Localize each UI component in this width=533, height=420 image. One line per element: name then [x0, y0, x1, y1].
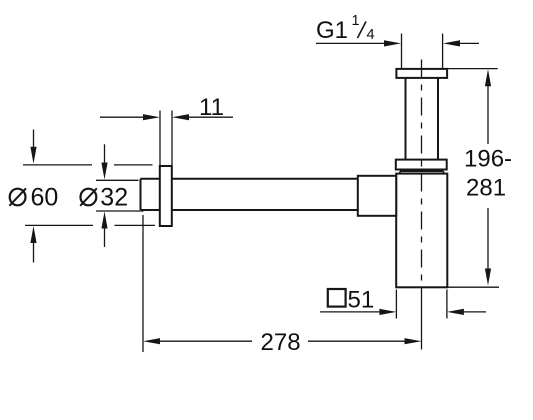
dim 32 arrows shafts [104, 144, 106, 247]
svg-text:51: 51 [348, 287, 375, 314]
arrow 11 left [143, 114, 160, 120]
arrow 278 left [143, 338, 160, 344]
arrow 60 bottom [30, 226, 36, 243]
dim 51 lines [320, 311, 486, 313]
svg-text:196-: 196- [464, 146, 512, 173]
arrow G1 right [443, 40, 460, 46]
dim 278 lines [160, 340, 405, 342]
dim 32 ext bottom [96, 210, 144, 212]
dim 60 ext bottom [25, 224, 155, 226]
seal ring [400, 171, 444, 173]
label diameter 60 [9, 188, 26, 206]
svg-text:1: 1 [352, 13, 360, 29]
arrow 32 top [101, 163, 107, 180]
dim 32 ext top [96, 179, 139, 181]
arrow 32 bottom [101, 212, 107, 229]
svg-text:60: 60 [31, 183, 59, 211]
ext lines 51 [396, 290, 447, 319]
svg-text:4: 4 [367, 27, 375, 43]
arrow 11 right [172, 114, 189, 120]
dim G1 1/4 lines [316, 42, 479, 44]
dim 196-281 shaft [487, 86, 489, 270]
svg-text:11: 11 [199, 94, 224, 121]
arrow 51 left [379, 309, 396, 315]
arrow 281 down [485, 269, 491, 286]
top flange [396, 69, 447, 78]
label diameter 32 [80, 188, 97, 206]
svg-text:281: 281 [466, 175, 506, 202]
trap body [396, 174, 447, 288]
svg-text:32: 32 [100, 183, 128, 211]
top nut [396, 160, 447, 170]
centerline vertical [421, 60, 423, 288]
dim 60 arrows shafts [33, 130, 35, 263]
arrow 60 top [30, 147, 36, 164]
ext lines G1 [402, 34, 443, 69]
ext lines 11 [160, 111, 172, 166]
arrow G1 left [384, 40, 401, 46]
label square 51 [328, 289, 346, 307]
wall flange [160, 166, 172, 226]
svg-text:G1: G1 [316, 17, 348, 44]
arrow 196 up [485, 69, 491, 86]
dim 11 lines [100, 116, 233, 118]
dim 60 ext top [23, 164, 153, 166]
upper pipe [406, 78, 439, 160]
svg-text:278: 278 [261, 329, 301, 356]
arrow 278 right [405, 338, 422, 344]
dim 196-281 ext top [447, 68, 498, 70]
arrow 51 right [447, 309, 464, 315]
dim 196-281 ext bottom [447, 286, 499, 288]
ext line 278 left [142, 215, 144, 352]
pipe nut [358, 176, 396, 216]
horizontal pipe [141, 179, 358, 210]
